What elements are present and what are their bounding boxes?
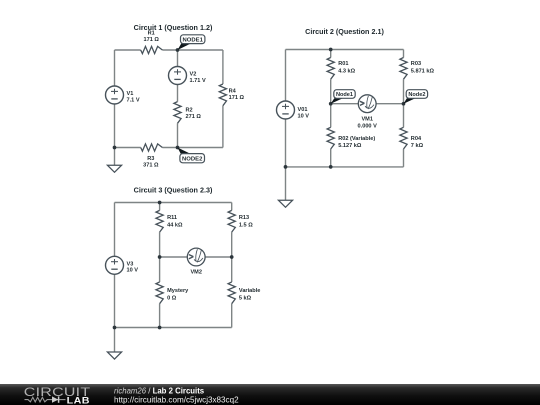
svg-text:R02 (Variable): R02 (Variable) bbox=[338, 136, 375, 142]
svg-text:5.127 kΩ: 5.127 kΩ bbox=[338, 143, 362, 149]
svg-text:10 V: 10 V bbox=[127, 268, 139, 274]
svg-text:R1: R1 bbox=[148, 31, 155, 37]
svg-text:R3: R3 bbox=[147, 156, 154, 162]
svg-text:0 Ω: 0 Ω bbox=[167, 295, 177, 301]
svg-text:NODE2: NODE2 bbox=[182, 157, 203, 163]
svg-text:V1: V1 bbox=[127, 91, 134, 97]
svg-text:V01: V01 bbox=[298, 107, 308, 113]
svg-text:VM1: VM1 bbox=[361, 116, 373, 122]
svg-text:R01: R01 bbox=[338, 61, 348, 67]
svg-text:Variable: Variable bbox=[239, 288, 260, 294]
svg-text:R2: R2 bbox=[186, 107, 193, 113]
svg-text:Mystery: Mystery bbox=[167, 288, 189, 294]
svg-text:R11: R11 bbox=[167, 215, 177, 221]
svg-text:V2: V2 bbox=[190, 71, 197, 77]
svg-text:NODE1: NODE1 bbox=[183, 37, 204, 43]
svg-text:1.5 Ω: 1.5 Ω bbox=[239, 222, 253, 228]
svg-text:5 kΩ: 5 kΩ bbox=[239, 295, 252, 301]
svg-text:0.000 V: 0.000 V bbox=[358, 123, 378, 129]
svg-text:Circuit 2 (Question 2.1): Circuit 2 (Question 2.1) bbox=[305, 27, 384, 36]
svg-text:7.1 V: 7.1 V bbox=[127, 97, 140, 103]
svg-text:7 kΩ: 7 kΩ bbox=[411, 143, 424, 149]
svg-text:Circuit 3 (Question 2.3): Circuit 3 (Question 2.3) bbox=[134, 186, 213, 195]
svg-text:44 kΩ: 44 kΩ bbox=[167, 222, 183, 228]
svg-text:271 Ω: 271 Ω bbox=[186, 114, 202, 120]
svg-text:R04: R04 bbox=[411, 136, 422, 142]
svg-text:371 Ω: 371 Ω bbox=[143, 162, 159, 168]
svg-text:R4: R4 bbox=[229, 88, 237, 94]
svg-text:richam26 / Lab 2 Circuits: richam26 / Lab 2 Circuits bbox=[114, 386, 205, 395]
svg-text:Node2: Node2 bbox=[408, 92, 425, 98]
svg-text:R13: R13 bbox=[239, 215, 249, 221]
svg-text:4.3 kΩ: 4.3 kΩ bbox=[338, 69, 355, 75]
svg-text:1.71 V: 1.71 V bbox=[190, 78, 206, 84]
svg-text:171 Ω: 171 Ω bbox=[144, 37, 160, 43]
svg-text:Node1: Node1 bbox=[336, 92, 353, 98]
svg-text:171 Ω: 171 Ω bbox=[229, 95, 245, 101]
svg-text:http://circuitlab.com/c5jwcj3x: http://circuitlab.com/c5jwcj3x83cq2 bbox=[114, 396, 239, 405]
svg-text:R03: R03 bbox=[411, 61, 421, 67]
svg-text:V3: V3 bbox=[127, 261, 134, 267]
svg-text:10 V: 10 V bbox=[298, 113, 310, 119]
svg-text:5.871 kΩ: 5.871 kΩ bbox=[411, 69, 435, 75]
svg-text:LAB: LAB bbox=[67, 396, 90, 405]
svg-text:VM2: VM2 bbox=[190, 270, 202, 276]
svg-text:Circuit 1 (Question 1.2): Circuit 1 (Question 1.2) bbox=[134, 23, 213, 32]
